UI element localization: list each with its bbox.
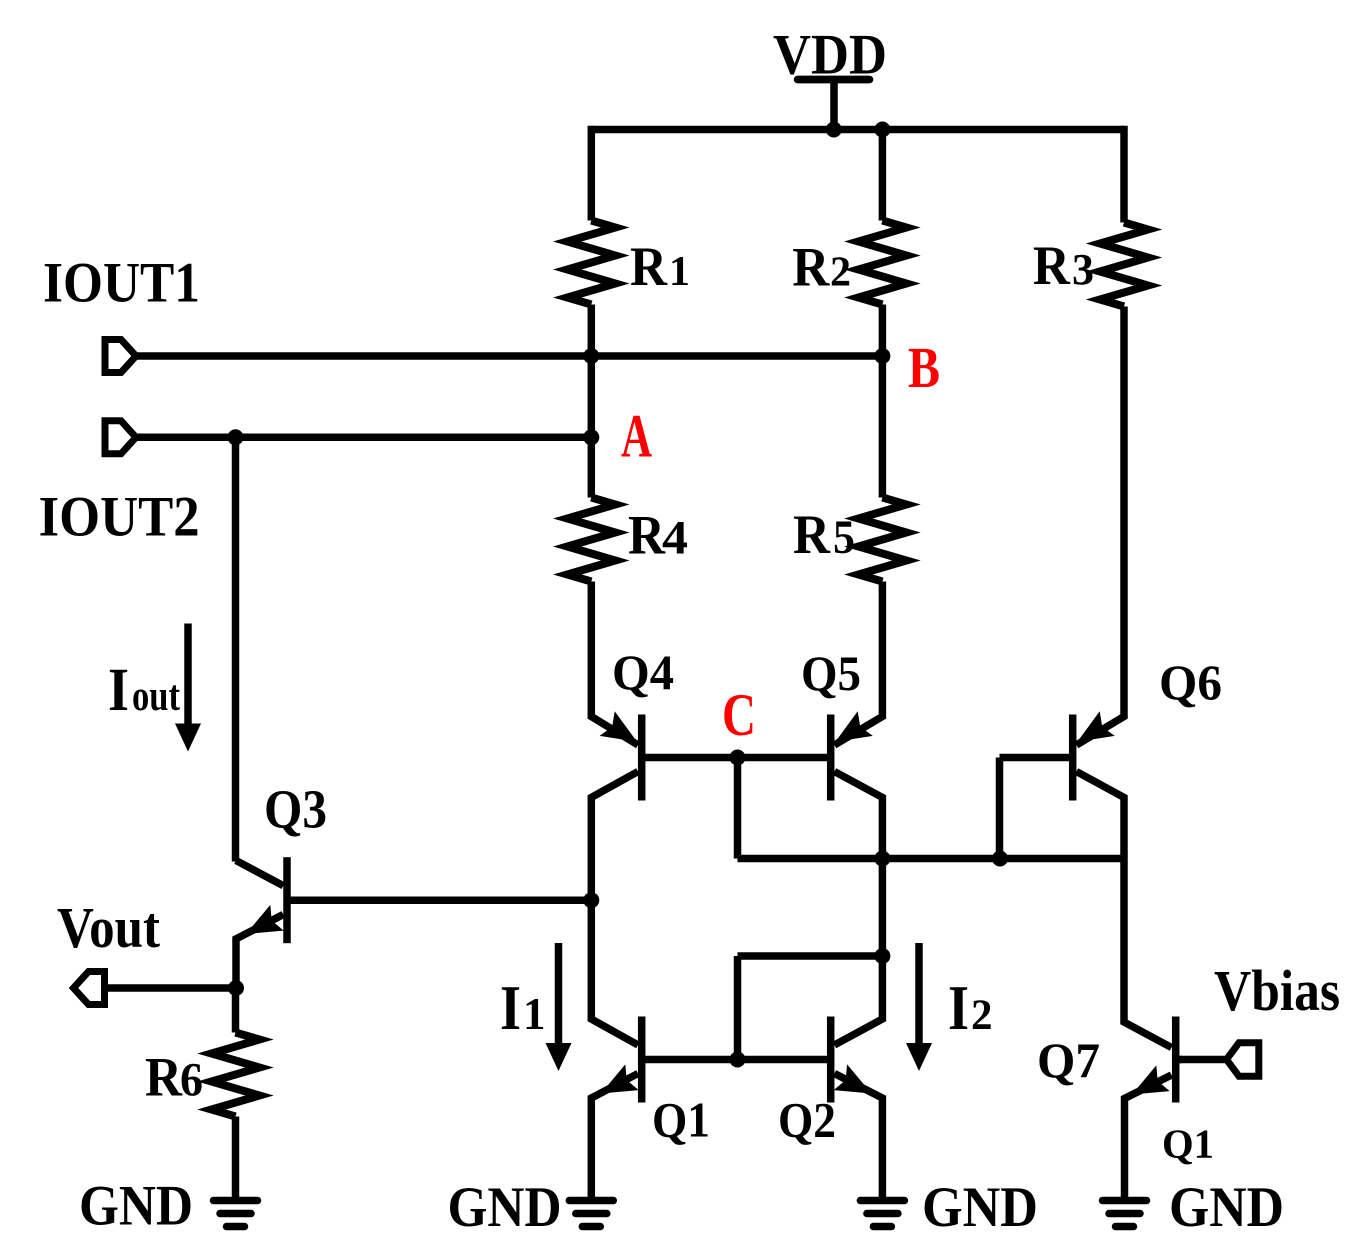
svg-text:1: 1: [669, 249, 690, 295]
svg-text:Vout: Vout: [57, 895, 161, 960]
svg-text:Q1: Q1: [1162, 1121, 1214, 1167]
svg-text:Q5: Q5: [801, 645, 861, 701]
svg-text:IOUT2: IOUT2: [39, 486, 200, 549]
svg-text:Q7: Q7: [1037, 1032, 1100, 1088]
svg-text:A: A: [621, 404, 652, 471]
svg-text:Q3: Q3: [264, 779, 327, 840]
svg-text:4: 4: [662, 512, 688, 565]
svg-text:IOUT1: IOUT1: [43, 252, 200, 315]
svg-text:Q6: Q6: [1159, 654, 1222, 710]
svg-text:R: R: [792, 236, 830, 298]
svg-text:R: R: [793, 504, 831, 566]
svg-text:Q2: Q2: [778, 1092, 836, 1148]
svg-text:GND: GND: [1169, 1176, 1284, 1239]
svg-text:6: 6: [180, 1054, 203, 1107]
svg-text:GND: GND: [79, 1175, 193, 1238]
svg-text:R: R: [1033, 235, 1071, 297]
svg-text:Q1: Q1: [652, 1092, 710, 1148]
svg-text:Vbias: Vbias: [1214, 958, 1340, 1023]
svg-text:3: 3: [1072, 245, 1094, 294]
svg-text:R: R: [628, 505, 666, 567]
svg-text:GND: GND: [922, 1176, 1038, 1239]
svg-text:R: R: [145, 1047, 183, 1109]
svg-text:R: R: [630, 236, 668, 298]
svg-text:Q4: Q4: [612, 644, 674, 700]
svg-text:VDD: VDD: [773, 24, 887, 87]
svg-text:2: 2: [830, 249, 851, 295]
svg-text:C: C: [722, 682, 756, 748]
svg-text:I: I: [948, 972, 969, 1043]
svg-text:I: I: [500, 972, 521, 1043]
svg-text:B: B: [908, 335, 940, 400]
svg-text:2: 2: [971, 992, 993, 1039]
svg-text:GND: GND: [448, 1176, 562, 1239]
svg-text:1: 1: [523, 989, 546, 1039]
svg-text:5: 5: [833, 511, 855, 564]
svg-text:I: I: [108, 657, 129, 724]
svg-text:out: out: [132, 673, 181, 720]
